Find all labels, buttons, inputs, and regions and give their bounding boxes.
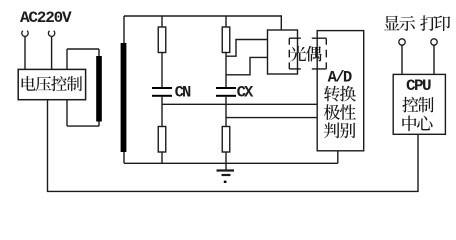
svg-text:CPU: CPU [406,77,431,95]
svg-text:CN: CN [175,84,191,102]
svg-text:A/D: A/D [328,68,352,86]
svg-text:AC220V: AC220V [20,9,72,27]
svg-text:CX: CX [237,84,254,102]
